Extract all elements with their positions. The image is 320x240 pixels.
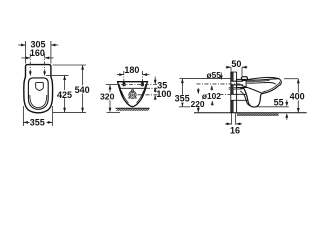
svg-text:425: 425 — [57, 90, 72, 100]
svg-text:320: 320 — [100, 92, 115, 102]
svg-text:355: 355 — [30, 118, 45, 128]
svg-text:540: 540 — [75, 85, 90, 95]
svg-text:100: 100 — [156, 89, 171, 99]
svg-text:50: 50 — [231, 59, 241, 69]
svg-text:400: 400 — [290, 92, 305, 102]
svg-text:220: 220 — [191, 99, 205, 109]
svg-text:355: 355 — [175, 94, 190, 104]
svg-text:160: 160 — [30, 48, 45, 58]
svg-text:55: 55 — [274, 98, 284, 108]
svg-text:ø102: ø102 — [202, 91, 221, 101]
svg-text:ø55: ø55 — [206, 70, 221, 80]
svg-text:180: 180 — [124, 65, 139, 75]
svg-text:16: 16 — [230, 125, 240, 135]
